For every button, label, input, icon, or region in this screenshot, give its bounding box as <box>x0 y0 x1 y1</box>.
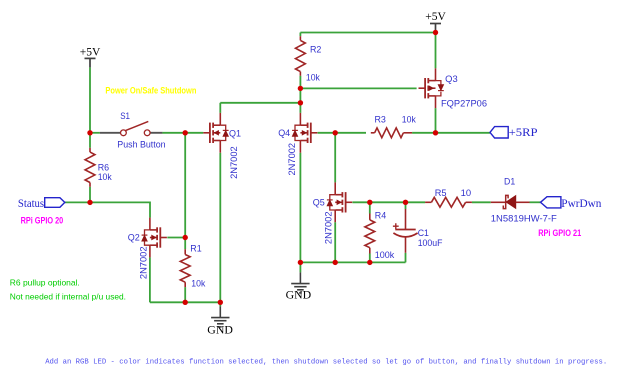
wire <box>220 102 300 104</box>
svg-text:10k: 10k <box>306 73 320 83</box>
svg-text:+5V: +5V <box>425 9 446 23</box>
wire <box>405 202 407 209</box>
svg-text:Add an RGB LED - color indicat: Add an RGB LED - color indicates functio… <box>45 358 607 366</box>
svg-text:10k: 10k <box>98 172 112 182</box>
junction Status/R6 <box>87 200 92 205</box>
capacitor C1 <box>393 209 418 253</box>
svg-text:Q3: Q3 <box>445 74 458 84</box>
junction switch/+5V rail <box>87 130 92 135</box>
wire <box>334 133 336 183</box>
resistor R6 <box>85 148 95 187</box>
net label Status <box>18 196 65 210</box>
svg-text:GND: GND <box>207 323 233 337</box>
wire <box>318 132 336 134</box>
power +5V (right) <box>425 9 446 32</box>
net label PwrDwn <box>541 196 602 210</box>
transistor Q2 <box>142 218 167 258</box>
svg-text:Not needed if internal p/u use: Not needed if internal p/u used. <box>10 292 126 302</box>
wire <box>89 187 91 203</box>
transistor Q3 <box>419 68 444 108</box>
transistor Q4 <box>292 113 317 153</box>
net label +5RP <box>490 125 538 139</box>
wire <box>184 287 186 302</box>
ground GND (left) <box>207 306 233 336</box>
ground GND (middle) <box>286 272 312 301</box>
wire <box>435 108 437 133</box>
wire <box>89 67 91 132</box>
wire <box>300 261 405 263</box>
wire <box>436 132 491 134</box>
svg-text:R4: R4 <box>375 210 386 220</box>
wire <box>184 238 186 250</box>
junction R4 top <box>367 200 372 205</box>
junction Q2 gate/R1 <box>183 235 188 240</box>
svg-text:Q2: Q2 <box>128 233 140 243</box>
wire <box>89 133 91 148</box>
wire <box>299 33 301 37</box>
wire <box>405 253 407 263</box>
svg-text:R1: R1 <box>190 243 201 253</box>
resistor R5 <box>425 197 472 207</box>
wire <box>335 132 366 134</box>
junction Q1 drain rail <box>298 100 303 105</box>
svg-text:Q4: Q4 <box>278 128 290 138</box>
svg-text:R6: R6 <box>98 162 109 172</box>
wire <box>530 201 541 203</box>
wire <box>299 262 301 272</box>
svg-text:Power On/Safe Shutdown: Power On/Safe Shutdown <box>105 86 196 96</box>
svg-text:RPi GPIO 21: RPi GPIO 21 <box>538 228 581 238</box>
wire <box>65 202 150 217</box>
wire <box>167 237 185 239</box>
svg-text:2N7002: 2N7002 <box>138 247 148 280</box>
wire <box>219 302 221 306</box>
svg-text:Status: Status <box>18 196 45 210</box>
wire <box>299 153 301 263</box>
wire <box>334 222 336 262</box>
svg-text:10k: 10k <box>402 115 416 125</box>
power +5V (left) <box>80 45 101 68</box>
svg-text:+5RP: +5RP <box>509 125 538 139</box>
wire <box>435 33 437 69</box>
wire <box>352 201 369 203</box>
transistor Q1 <box>203 113 228 153</box>
wire <box>150 301 220 303</box>
svg-text:1N5819HW-7-F: 1N5819HW-7-F <box>491 214 557 224</box>
svg-text:Q1: Q1 <box>229 129 241 139</box>
junction Q1 source/GND <box>218 300 223 305</box>
resistor R4 <box>365 214 375 254</box>
wire <box>299 76 301 103</box>
wire <box>412 132 435 134</box>
svg-text:D1: D1 <box>504 176 515 186</box>
junction R1/GND rail <box>183 300 188 305</box>
diode D1 schottky <box>491 195 530 208</box>
svg-text:RPi GPIO 20: RPi GPIO 20 <box>21 216 64 226</box>
switch S1 Push Button <box>100 121 162 135</box>
wire <box>299 103 301 113</box>
svg-text:Push Button: Push Button <box>117 140 165 150</box>
svg-text:100k: 100k <box>375 250 395 260</box>
wire <box>184 133 186 238</box>
wire <box>90 132 100 134</box>
svg-text:R6 pullup optional.: R6 pullup optional. <box>10 277 80 287</box>
junction switch output <box>183 130 188 135</box>
svg-text:GND: GND <box>286 288 312 302</box>
svg-text:10: 10 <box>461 188 472 198</box>
junction +5V rail <box>433 30 438 35</box>
svg-text:100uF: 100uF <box>418 238 443 248</box>
junction Q3/+5RP <box>433 130 438 135</box>
resistor R2 <box>296 36 306 76</box>
junction Q5 source/rail <box>333 260 338 265</box>
resistor R1 <box>180 249 190 287</box>
svg-text:FQP27P06: FQP27P06 <box>441 99 487 109</box>
svg-text:2N7002: 2N7002 <box>323 212 333 245</box>
transistor Q5 <box>327 182 352 222</box>
svg-text:10k: 10k <box>191 278 205 288</box>
junction Q4 source/GND <box>298 260 303 265</box>
wire <box>162 132 203 134</box>
svg-text:C1: C1 <box>418 228 429 238</box>
svg-text:2N7002: 2N7002 <box>229 146 239 179</box>
wire <box>300 32 435 34</box>
wire <box>300 87 416 89</box>
wire <box>219 153 221 303</box>
svg-text:Q5: Q5 <box>313 198 325 208</box>
wire <box>149 257 151 302</box>
svg-text:+5V: +5V <box>80 45 101 59</box>
wire <box>369 254 371 263</box>
wire <box>472 201 491 203</box>
resistor R3 <box>371 128 412 138</box>
svg-text:R5: R5 <box>435 188 447 198</box>
wire <box>219 103 221 113</box>
svg-text:R2: R2 <box>310 44 321 54</box>
svg-text:R3: R3 <box>375 115 386 125</box>
wire <box>369 202 371 213</box>
svg-text:2N7002: 2N7002 <box>287 143 297 176</box>
junction R2/Q3 gate <box>298 86 303 91</box>
wire <box>406 201 426 203</box>
svg-text:PwrDwn: PwrDwn <box>561 196 601 210</box>
svg-text:S1: S1 <box>120 111 130 121</box>
wire <box>370 201 406 203</box>
junction C1 top <box>403 200 408 205</box>
junction R4 bottom <box>367 260 372 265</box>
junction R3/Q5 drain <box>333 130 338 135</box>
